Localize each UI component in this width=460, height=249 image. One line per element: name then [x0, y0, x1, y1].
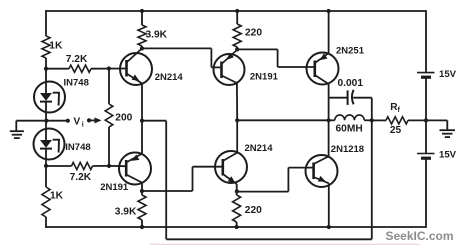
svg-text:25: 25 — [390, 125, 402, 136]
svg-text:15V: 15V — [439, 149, 457, 160]
svg-text:1K: 1K — [50, 191, 64, 202]
svg-text:2N191: 2N191 — [250, 72, 279, 83]
svg-text:60MH: 60MH — [336, 124, 363, 135]
svg-text:2N191: 2N191 — [100, 182, 129, 193]
svg-text:IN748: IN748 — [64, 78, 89, 89]
svg-text:i: i — [82, 122, 84, 129]
svg-text:2N214: 2N214 — [245, 143, 274, 154]
svg-text:3.9K: 3.9K — [115, 206, 137, 217]
svg-text:0.001: 0.001 — [338, 78, 364, 89]
svg-text:220: 220 — [245, 205, 262, 216]
svg-text:V: V — [74, 116, 81, 127]
svg-text:220: 220 — [245, 27, 262, 38]
svg-text:200: 200 — [115, 113, 132, 124]
svg-text:2N214: 2N214 — [155, 72, 184, 83]
svg-text:2N1218: 2N1218 — [331, 144, 364, 155]
svg-text:IN748: IN748 — [65, 142, 90, 153]
svg-text:1K: 1K — [49, 41, 63, 52]
svg-text:7.2K: 7.2K — [66, 54, 88, 65]
svg-text:f: f — [398, 107, 401, 114]
svg-text:2N251: 2N251 — [336, 45, 365, 56]
svg-text:7.2K: 7.2K — [70, 172, 92, 183]
svg-text:3.9K: 3.9K — [146, 29, 168, 40]
svg-text:SeekIC.com: SeekIC.com — [386, 229, 454, 243]
svg-text:15V: 15V — [439, 69, 457, 80]
